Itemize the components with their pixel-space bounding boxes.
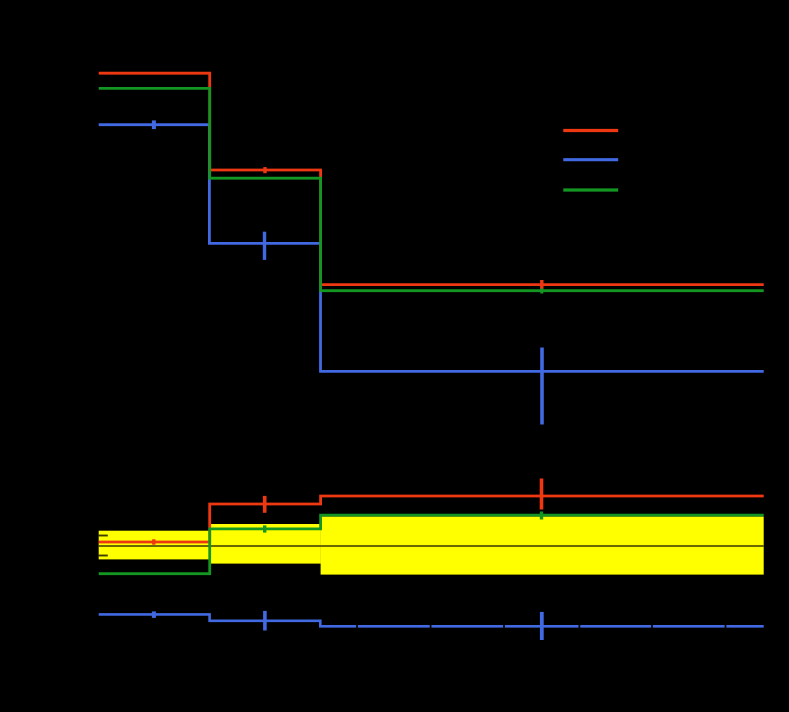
ratio error bar red bin2: [263, 496, 267, 513]
blue histogram main: [99, 125, 764, 372]
red histogram main: [99, 73, 764, 284]
main error bar blue bin3: [540, 348, 544, 425]
green histogram main: [99, 88, 764, 290]
bin1 stat cap dash lower: [99, 555, 108, 557]
green ratio step: [99, 515, 764, 574]
red ratio step: [99, 496, 764, 542]
ratio error bar green bin2: [263, 525, 266, 532]
ratio error bar red bin1: [152, 539, 155, 544]
yellow band bin1: [99, 531, 210, 560]
legend blue line: [563, 158, 618, 161]
legend green line: [563, 188, 618, 191]
ratio error bar red bin3: [540, 479, 544, 510]
main error bar red bin2: [263, 167, 266, 173]
main error bar blue bin1: [152, 120, 156, 129]
gaps between blue ratio sub-points in bin3: [357, 624, 726, 629]
main error bar red bin3: [540, 280, 543, 289]
ratio error bar blue bin2: [263, 611, 267, 631]
ratio=1 reference line (black over yellow, appears olive): [99, 545, 764, 547]
ratio error bar blue bin3: [540, 612, 544, 640]
yellow band bin2: [210, 524, 321, 564]
legend red line: [563, 129, 618, 132]
blue ratio step: [99, 614, 764, 626]
ratio error bar blue bin1: [152, 611, 156, 618]
main error bar blue bin2: [263, 232, 266, 260]
yellow band bin3: [321, 517, 764, 575]
bin1 stat cap dash upper: [99, 535, 108, 537]
main error bar green bin3: [540, 289, 543, 294]
ratio error bar green bin3: [540, 512, 543, 520]
